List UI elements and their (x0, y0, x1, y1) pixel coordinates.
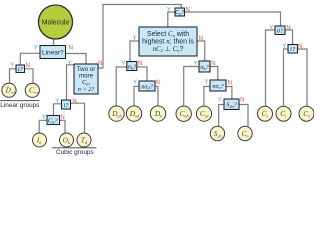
decision sigma? (275, 26, 285, 35)
svg-text:N: N (69, 46, 73, 52)
svg-text:N: N (240, 98, 244, 104)
wire i? N branch (25, 69, 34, 83)
svg-text:Y: Y (133, 36, 137, 42)
svg-text:Y: Y (121, 61, 125, 67)
svg-text:N: N (199, 36, 203, 42)
wire i? cubic Y branch (54, 104, 62, 116)
svg-text:N: N (298, 44, 302, 50)
svg-text:Cubic groups: Cubic groups (56, 149, 94, 156)
wire S2n? Y branch (219, 105, 224, 127)
svg-text:Y: Y (269, 26, 273, 32)
decision S2n? (224, 99, 239, 110)
wire sigma-h? (left) N branch (137, 67, 147, 81)
terminal C1 (299, 106, 314, 121)
decision sigma-h? (right) (199, 61, 210, 72)
terminal Dnd (126, 106, 141, 121)
svg-text:Select Cn with: Select Cn with (147, 31, 189, 38)
svg-text:N: N (60, 115, 64, 121)
terminal Cn (238, 126, 252, 140)
svg-text:N: N (211, 61, 215, 67)
wire i? cubic N branch (71, 103, 85, 133)
decision Two or more Cn, n>2? (74, 64, 98, 94)
svg-text:i?: i? (18, 66, 24, 73)
wire Select N branch (197, 41, 205, 61)
terminal S2n (210, 126, 224, 140)
terminal Cnh (176, 106, 191, 121)
wire S2n? N branch (239, 105, 248, 127)
svg-text:Y: Y (218, 98, 222, 104)
svg-text:Y: Y (204, 80, 208, 86)
svg-text:Linear groups: Linear groups (0, 102, 39, 109)
svg-text:σh?: σh? (128, 63, 137, 70)
svg-text:Y: Y (55, 99, 59, 105)
terminal Dnh (109, 106, 124, 121)
decision n-sigma-d? (139, 81, 155, 91)
svg-text:N: N (186, 7, 190, 13)
svg-text:nσd?: nσd? (141, 83, 153, 90)
terminal Ci (276, 106, 291, 121)
svg-text:N: N (156, 80, 160, 86)
wire Linear? Y branch (20, 53, 40, 65)
wire Two-or-more Y branch (67, 65, 75, 100)
svg-text:N: N (138, 61, 142, 67)
wire sigma? N branch (285, 30, 293, 45)
decision sigma-h? (left) (127, 62, 137, 71)
wire sigma-h? (left) Y branch (116, 67, 127, 106)
terminal Cs (258, 106, 273, 121)
decision i? (linear) (16, 65, 25, 73)
svg-text:nσv?: nσv? (212, 83, 224, 90)
svg-text:N: N (26, 63, 30, 69)
svg-text:n > 2?: n > 2? (78, 86, 95, 93)
decision Select Cn with highest n (139, 27, 197, 56)
svg-text:Y: Y (282, 44, 286, 50)
decision Cn? (175, 8, 185, 16)
svg-text:Y: Y (133, 80, 137, 86)
svg-text:Y: Y (42, 115, 46, 121)
svg-text:Y: Y (68, 61, 72, 67)
svg-text:i?: i? (290, 46, 296, 53)
wire i? (right) Y branch (284, 49, 289, 106)
wire Select Y branch (130, 41, 139, 62)
svg-text:Cn?: Cn? (175, 10, 184, 16)
terminal D-infinity-h (2, 83, 16, 97)
svg-text:N: N (98, 61, 102, 67)
wire i? Y branch (10, 69, 17, 83)
terminal Td (77, 133, 91, 147)
svg-text:σ?: σ? (277, 28, 284, 35)
node Molecule (39, 5, 73, 39)
wire Molecule to Linear? (53, 39, 55, 46)
wire sigma-h? (right) N branch (210, 67, 218, 81)
wire C5? Y branch (39, 120, 47, 133)
terminal Cnv (196, 106, 211, 121)
svg-text:Y: Y (194, 61, 198, 67)
svg-text:N: N (228, 81, 232, 87)
wire i? (right) N branch (298, 49, 308, 106)
wire sigma-h? (right) Y branch (184, 67, 199, 106)
wire n-sigma-v? Y branch (204, 87, 210, 106)
svg-text:Molecule: Molecule (42, 19, 70, 26)
svg-text:N: N (286, 26, 290, 32)
wire sigma? Y branch (266, 30, 276, 106)
wire Linear? N branch (66, 54, 87, 65)
wire Two-or-more N branch (98, 5, 181, 69)
svg-text:Y: Y (167, 7, 171, 13)
decision C5? (47, 116, 60, 125)
decision n-sigma-v? (210, 80, 226, 91)
svg-text:nC2 ⊥ Cn?: nC2 ⊥ Cn? (153, 46, 184, 53)
wire n-sigma-d? N branch (155, 86, 158, 106)
decision i? (cubic) (62, 100, 71, 109)
svg-text:Y: Y (10, 63, 14, 69)
svg-text:Linear?: Linear? (42, 50, 64, 57)
wire n-sigma-v? N branch (226, 87, 232, 100)
label Cubic groups (52, 147, 97, 149)
svg-text:i?: i? (63, 102, 69, 109)
wire Cn? Y branch (168, 12, 175, 27)
wire Cn? N branch (185, 12, 281, 26)
label Linear groups (0, 100, 40, 102)
decision i? (right) (288, 45, 298, 54)
svg-text:Y: Y (34, 46, 38, 52)
wire n-sigma-d? Y branch (134, 86, 139, 106)
terminal Ih (33, 133, 47, 147)
terminal Oh (60, 133, 74, 147)
svg-text:N: N (72, 99, 76, 105)
terminal Dn (150, 106, 165, 121)
svg-text:σh?: σh? (200, 64, 209, 71)
decision Linear? (40, 46, 66, 59)
svg-text:highest n; then is: highest n; then is (142, 39, 194, 46)
wire C5? N branch (60, 120, 66, 133)
terminal C-infinity-v (25, 83, 39, 97)
